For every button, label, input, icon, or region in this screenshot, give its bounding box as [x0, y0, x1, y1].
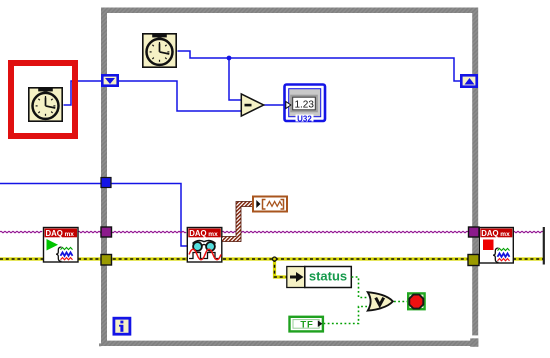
tunnel blue on left border — [101, 178, 111, 188]
error wire junction — [273, 257, 277, 261]
waveform data wire (brown candy stripe) — [222, 204, 252, 239]
wire: purple task wire segments — [0, 231, 543, 232]
wire: green dotted TF to OR — [324, 307, 368, 324]
red highlight rectangle — [11, 63, 75, 136]
tick count clock (inside loop) — [143, 34, 176, 67]
shift register right terminal — [461, 75, 476, 86]
shift register left terminal — [102, 75, 117, 85]
DAQmx Start Task node — [44, 228, 79, 263]
subtract function — [241, 94, 263, 116]
svg-text:DAQ: DAQ — [481, 229, 498, 238]
wire: shift register to subtract lower input — [119, 81, 241, 111]
stop button — [408, 293, 424, 309]
TF boolean constant — [290, 317, 323, 332]
svg-text:TF: TF — [300, 319, 313, 330]
waveform indicator — [253, 197, 287, 212]
wire: subtract output to indicator — [264, 104, 287, 106]
terminating vertical line right edge — [543, 227, 545, 265]
while loop border — [101, 8, 478, 347]
svg-text:mx: mx — [500, 231, 510, 238]
svg-text:mx: mx — [208, 231, 218, 238]
iteration terminal i — [114, 318, 130, 334]
svg-text:U32: U32 — [297, 115, 312, 124]
svg-text:mx: mx — [65, 231, 75, 238]
svg-text:1.23: 1.23 — [294, 99, 314, 110]
wire: green dotted OR to stop button — [394, 301, 407, 303]
tunnel olive on right border — [468, 255, 479, 266]
OR gate — [368, 292, 393, 310]
tunnel olive on left border — [101, 255, 112, 266]
DAQmx Clear/Stop node — [479, 228, 513, 264]
svg-text:DAQ: DAQ — [189, 229, 206, 238]
wire: samples count blue wire into DAQmx read — [0, 184, 187, 247]
unbundle by name: status — [287, 267, 352, 288]
wire: blue init wire from outside clock to left shift register — [64, 81, 102, 105]
tunnel purple on left border — [101, 227, 112, 237]
junction dot — [227, 56, 232, 61]
wire: branch down to subtract upper input — [229, 58, 241, 100]
numeric indicator U32 — [285, 85, 326, 124]
wire: error wire segments (yellow with black dashes) — [0, 259, 544, 277]
tunnel purple on right border — [469, 227, 480, 237]
svg-text:status: status — [309, 268, 347, 283]
wire: green dotted status to OR — [352, 277, 368, 298]
wire: clock output across top to right shift register — [178, 51, 462, 81]
svg-text:DAQ: DAQ — [46, 229, 63, 238]
wait ms clock (outside loop) — [29, 88, 62, 121]
DAQmx Read node — [187, 228, 222, 263]
